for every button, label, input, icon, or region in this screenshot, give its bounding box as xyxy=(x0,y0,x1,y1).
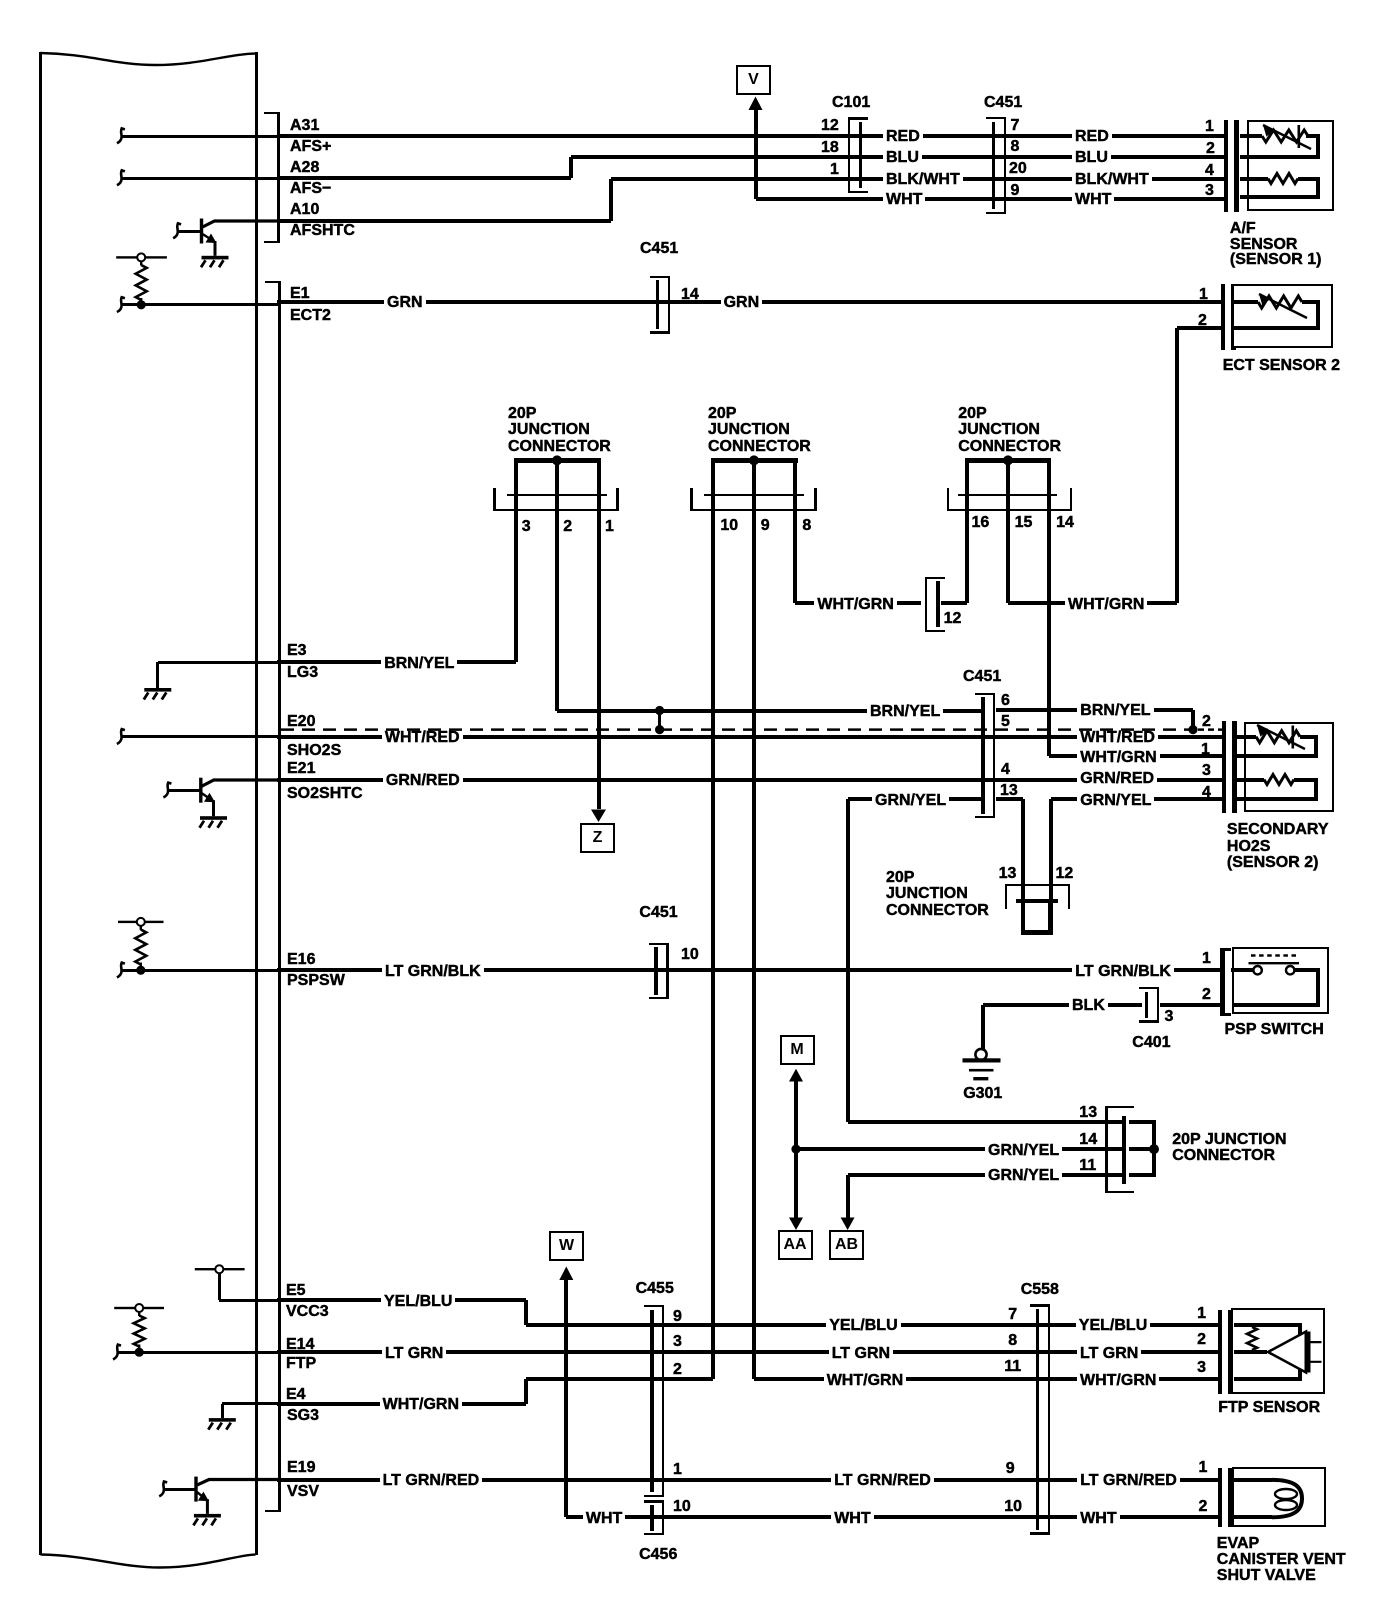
wire label WHT (left) xyxy=(583,1510,625,1528)
20P junction connector 2 xyxy=(711,458,798,462)
wire label BLK xyxy=(1069,997,1108,1015)
label PSP SWITCH xyxy=(1225,1022,1324,1038)
HO2S heater loop right side xyxy=(1314,780,1318,800)
pin 3 junction connector 1 xyxy=(522,519,531,535)
wire RED A31 row to A/F sensor pin1 xyxy=(277,134,1224,138)
page reference box AA xyxy=(778,1230,813,1260)
connector C451 (E16 wire) xyxy=(654,947,658,995)
transistor Q3 VSV driver ground xyxy=(194,1514,221,1518)
ECM connector bracket (E-pins group) xyxy=(278,281,280,1512)
pin A28 xyxy=(290,160,319,176)
wire label WHT/GRN (sensor row) xyxy=(1077,749,1159,767)
E3 internal ground wire xyxy=(158,661,278,664)
pin 18 C101 xyxy=(821,140,839,156)
transistor Q2 SO2SHTC driver emitter arrow xyxy=(202,793,211,799)
transistor Q1 AFSHTC driver collector xyxy=(203,221,279,227)
pin 2 EVAP valve xyxy=(1199,1499,1208,1515)
junction dot shield jumper top xyxy=(655,706,664,715)
wire E16 stub inside ECM xyxy=(121,969,279,972)
right junction bus dot xyxy=(1149,1144,1159,1154)
label C101 xyxy=(832,95,870,111)
pin name SG3 xyxy=(287,1408,319,1424)
label EVAP xyxy=(1217,1536,1259,1552)
resistor R2 zigzag xyxy=(135,930,146,965)
pin 3 FTP sensor xyxy=(1197,1360,1206,1376)
torn wire hook E1 xyxy=(117,297,125,312)
pin 12 connector xyxy=(944,611,962,627)
wire label GRN/YEL (row11) xyxy=(985,1167,1062,1185)
PSP switch lever xyxy=(1249,962,1300,964)
mid 20P junction connector (pins 13/12) bracket xyxy=(1005,884,1007,909)
page reference box Z xyxy=(580,823,615,853)
pin 2 junction connector 1 xyxy=(563,519,572,535)
A/F sensor body xyxy=(1247,120,1335,211)
EVAP valve connector bar xyxy=(1218,1468,1222,1527)
page reference box V xyxy=(736,65,771,95)
transistor Q3 VSV driver emitter arrow xyxy=(197,1492,204,1498)
mid 20P junction connector bus loop xyxy=(1016,899,1058,904)
label C451 xyxy=(984,95,1022,111)
A/F heater wire right xyxy=(1298,177,1320,181)
wire label WHT/GRN (right) xyxy=(1077,1372,1159,1390)
label A/F xyxy=(1230,221,1256,237)
pin 13 mid junction connector xyxy=(999,866,1017,882)
pin 20 C451 xyxy=(1009,161,1027,177)
wire label WHT/GRN (to ECT2) xyxy=(1065,596,1147,614)
connector C101 xyxy=(859,122,863,188)
torn wire hook E20 xyxy=(117,729,125,744)
EVAP coil loop 2 xyxy=(1275,1500,1297,1510)
wire label LT GRN/BLK (left) xyxy=(382,963,484,981)
wire label WHT/RED (right) xyxy=(1077,729,1158,747)
ECM connector bracket (A-pins group) xyxy=(277,112,279,243)
wire BRN/YEL elbow down to shield xyxy=(1191,710,1195,730)
A/F loop right side xyxy=(1316,136,1320,157)
EVAP coil wire bottom xyxy=(1234,1515,1273,1519)
pin 10 C451 xyxy=(681,947,699,963)
wire GRN E1 row to ECT sensor 2 xyxy=(277,300,1221,304)
wire BRN/YEL drop JC1 pin2 xyxy=(555,511,559,711)
shield jumper wire xyxy=(658,711,661,730)
wire label LT GRN/BLK (right) xyxy=(1072,963,1174,981)
EVAP coil wire top xyxy=(1234,1478,1273,1482)
ground at E4 SG3 xyxy=(209,1418,236,1422)
HO2S heater return pin4 xyxy=(1234,797,1319,801)
wire WHT/GRN drop JC2 pin10 xyxy=(711,511,715,1379)
wire WHT/GRN JC2 pin9 run to FTP pin3 xyxy=(754,1377,1218,1381)
R2 lead xyxy=(140,926,142,930)
arrowhead down into AB xyxy=(841,1218,855,1231)
wire label LT GRN (left) xyxy=(382,1345,446,1363)
pin name AFSHTC xyxy=(290,223,355,239)
resistor R3 zigzag xyxy=(134,1316,145,1347)
wire label YEL/BLU (right) xyxy=(1076,1317,1150,1335)
pin name SO2SHTC xyxy=(287,786,363,802)
label SECONDARY xyxy=(1227,822,1329,838)
pin name FTP xyxy=(286,1356,316,1372)
R1 top rail xyxy=(116,256,167,258)
wire label WHT/GRN (to conn 12) xyxy=(814,596,896,614)
pin 14 C451 xyxy=(681,287,699,303)
wire BRN/YEL JC1pin2 to C451 pin6 xyxy=(557,709,982,713)
pin name AFS- xyxy=(290,181,331,197)
20P junction connector 3 bus dot xyxy=(1003,455,1013,465)
wire label YEL/BLU (left) xyxy=(381,1293,455,1311)
wire E14 stub inside ECM xyxy=(117,1351,278,1354)
page reference box M xyxy=(780,1035,815,1065)
pin 1 FTP sensor xyxy=(1197,1306,1206,1322)
pin 7 C451 xyxy=(1011,118,1020,134)
wire LT GRN/BLK E16 row to PSP switch xyxy=(277,968,1220,972)
label G301 xyxy=(963,1086,1002,1102)
ECT sensor 2 body xyxy=(1232,284,1334,348)
wire GRN/YEL drop to mid junction pin13 xyxy=(1021,799,1025,901)
FTP sensor triangle xyxy=(1268,1332,1306,1373)
pin 9 C451 xyxy=(1011,183,1020,199)
transistor Q3 VSV driver collector xyxy=(197,1480,278,1486)
HO2S heater zigzag xyxy=(1264,775,1294,785)
wire BLK PSP pin2 to G301 xyxy=(983,1003,1142,1007)
pin 2 FTP sensor xyxy=(1197,1332,1206,1348)
pin 13 C451 xyxy=(1000,783,1018,799)
wire label LT GRN/RED (right) xyxy=(1077,1472,1180,1490)
pin 1 C455 xyxy=(673,1462,682,1478)
PSP loop right side xyxy=(1316,970,1320,1005)
pin 12 C101 xyxy=(821,118,839,134)
wire drop JC1 pin1 to page ref Z xyxy=(597,511,601,809)
pin 4 C451 xyxy=(1001,762,1010,778)
R1 lead xyxy=(140,261,142,265)
20P junction connector 3 xyxy=(965,458,1051,462)
arrowhead up into V xyxy=(749,97,763,111)
pin name VSV xyxy=(287,1484,319,1500)
G301 bar1 xyxy=(963,1058,1001,1062)
wire WHT/GRN drop JC3 pin14 xyxy=(1047,511,1051,756)
FTP top loop wire xyxy=(1234,1323,1303,1327)
resistor R1 zigzag xyxy=(136,265,147,300)
wire A28 stub inside ECM xyxy=(121,177,279,180)
pin 2 A/F sensor xyxy=(1206,141,1215,157)
pin 4 A/F sensor xyxy=(1205,163,1214,179)
pin 12 mid junction connector xyxy=(1056,866,1074,882)
A/F element arrow xyxy=(1263,125,1311,149)
wire label RED (right) xyxy=(1072,128,1112,146)
label CONNECTOR (mid junction) xyxy=(886,903,989,919)
pin 8 C558 xyxy=(1008,1333,1017,1349)
wire label BRN/YEL (left of C451) xyxy=(867,703,943,721)
label CANISTER VENT xyxy=(1217,1552,1346,1568)
wire label BRN/YEL (right of C451) xyxy=(1077,702,1153,720)
wire LT GRN E14 row to FTP pin2 xyxy=(277,1350,1218,1354)
wire GRN/RED E21 row to HO2S xyxy=(277,778,1222,782)
label C456 xyxy=(639,1547,677,1563)
torn wire hook A31 xyxy=(117,128,125,143)
ground at E3 xyxy=(144,688,171,692)
transistor Q1 AFSHTC driver ground xyxy=(202,256,229,260)
wire WHT/RED E20 row to HO2S xyxy=(277,735,1222,739)
junction dot R3-E14 xyxy=(135,1348,144,1357)
PSP loop return pin2 xyxy=(1233,1003,1320,1007)
pin 11 C558 xyxy=(1004,1359,1021,1375)
wire BLK C401 to PSP pin2 xyxy=(1160,1003,1221,1007)
pin 1 HO2S xyxy=(1201,742,1210,758)
EVAP coil loop 1 xyxy=(1275,1489,1297,1499)
pin 1 ECT sensor 2 xyxy=(1199,287,1208,303)
label (SENSOR 1) xyxy=(1230,252,1322,268)
arrowhead up into W xyxy=(559,1267,573,1281)
wire label GRN (left) xyxy=(384,294,426,312)
wire GRN/YEL row 11 xyxy=(848,1173,1125,1177)
pin 8 C451 xyxy=(1011,139,1020,155)
wire label GRN/YEL (left of C451) xyxy=(872,792,949,810)
transistor Q1 AFSHTC driver base bar xyxy=(200,219,203,244)
torn wire hook Q3 base xyxy=(159,1482,167,1497)
connector C456 xyxy=(650,1505,654,1531)
pin 8 junction connector 2 xyxy=(802,518,811,534)
transistor Q2 SO2SHTC driver emitter lead xyxy=(212,800,215,816)
label ECT SENSOR 2 xyxy=(1223,358,1340,374)
label CONNECTOR xyxy=(1172,1148,1275,1164)
pin E19 xyxy=(287,1460,315,1476)
wire label WHT (left) xyxy=(883,191,925,209)
wire WHT/GRN from ECT pin2 xyxy=(1177,326,1222,330)
label SHUT VALVE xyxy=(1217,1568,1316,1584)
wire label BLU (left) xyxy=(883,149,922,167)
PSP contact A xyxy=(1253,966,1261,974)
pin 1 PSP switch xyxy=(1202,951,1211,967)
junction dot R1-E1 xyxy=(137,300,146,309)
pin name PSPSW xyxy=(287,973,345,989)
pin 2 ECT sensor 2 xyxy=(1198,313,1207,329)
wire label WHT/GRN (left) xyxy=(380,1396,462,1414)
label C451 at E16 xyxy=(639,905,677,921)
E5 internal VCC tap xyxy=(218,1273,221,1300)
HO2S sensing element zigzag xyxy=(1256,731,1300,743)
wire WHT vertical from page ref V xyxy=(754,108,758,199)
pin 5 C451 xyxy=(1001,714,1010,730)
HO2S loop right side xyxy=(1314,737,1318,757)
pin 2 C455 xyxy=(673,1362,682,1378)
wire WHT/GRN drop JC3 pin15 xyxy=(1006,511,1010,603)
junction dot shield end xyxy=(1188,725,1197,734)
pin E21 xyxy=(287,761,315,777)
pin 14 right junction connector xyxy=(1079,1132,1097,1148)
wire WHT/GRN E4 row xyxy=(277,1402,526,1406)
wire label GRN/RED (left) xyxy=(383,772,463,790)
PSP switch dashed travel line xyxy=(1251,954,1296,956)
ECT loop return pin2 xyxy=(1232,326,1320,330)
A/F element wire right xyxy=(1306,134,1320,138)
connector C451 (GRN wire) xyxy=(656,280,660,329)
20P junction connector 1 xyxy=(514,458,601,462)
HO2S loop return pin1 xyxy=(1234,754,1319,758)
page reference box AB xyxy=(829,1230,864,1260)
pin 10 junction connector 2 xyxy=(720,518,738,534)
connector C451 (engine harness, A/F sensor wires) xyxy=(992,122,996,210)
ECT sensor 2 connector bar xyxy=(1221,284,1225,350)
HO2S sensor body xyxy=(1244,722,1334,813)
transistor Q3 VSV driver emitter lead xyxy=(206,1499,209,1514)
HO2S heater wire right xyxy=(1294,778,1318,782)
wire BRN/YEL C451 pin6 to sensor shield xyxy=(996,708,1193,712)
HO2S element arrow xyxy=(1257,725,1305,749)
wire WHT/GRN vertical down from ECT pin2 xyxy=(1175,328,1179,603)
wire BLK/WHT step up xyxy=(609,179,613,221)
G301 bar3 xyxy=(973,1077,988,1080)
shield dashed line E20 xyxy=(281,728,1193,731)
wire BLU step up xyxy=(569,157,573,178)
HO2S element wire xyxy=(1234,735,1257,739)
torn wire hook Q1 base xyxy=(173,223,181,238)
HO2S element tick xyxy=(1292,726,1295,749)
wire WHT/GRN JC3pin14 to HO2S pin1 xyxy=(1049,754,1223,758)
E5 rail xyxy=(195,1268,245,1270)
pin 3 C401 xyxy=(1165,1009,1174,1025)
label HO2S xyxy=(1227,839,1271,855)
right 20P junction connector bracket xyxy=(1122,1116,1126,1184)
A/F element tick xyxy=(1298,125,1301,148)
wire WHT/GRN drop JC2 pin8 xyxy=(793,511,797,603)
wire GRN/YEL down to AB xyxy=(846,1175,850,1219)
connector C455 xyxy=(650,1310,654,1493)
torn wire hook A28 xyxy=(117,170,125,185)
wire BLU upper run to A/F pin2 xyxy=(571,155,1224,159)
wire YEL/BLU run to FTP pin1 xyxy=(526,1323,1218,1327)
Q3 base lead xyxy=(163,1488,195,1491)
pin 15 junction connector 3 xyxy=(1015,515,1033,531)
ECT sensor 2 thermistor zigzag xyxy=(1258,296,1302,308)
PSP switch connector bracket xyxy=(1220,948,1225,1015)
wire WHT/GRN drop JC2 pin9 xyxy=(752,511,756,1379)
ECT element wire xyxy=(1232,300,1258,304)
shield dashed stub at HO2S pin2 xyxy=(1198,728,1223,731)
wire WHT/GRN step up xyxy=(524,1379,528,1404)
pin 13 right junction connector xyxy=(1079,1105,1097,1121)
R2 top rail xyxy=(118,921,164,923)
wire BRN/YEL E3 row xyxy=(277,660,516,664)
pin 7 C558 xyxy=(1008,1307,1017,1323)
torn wire hook E14 xyxy=(113,1345,121,1360)
pin 2 HO2S xyxy=(1202,714,1211,730)
wire LT GRN/RED E19 row to EVAP valve xyxy=(277,1478,1218,1482)
label SENSOR xyxy=(1230,237,1298,253)
wire GRN/YEL row 13 to right junction connector xyxy=(848,1120,1126,1124)
label C451 mid xyxy=(963,669,1001,685)
A/F heater return pin3 xyxy=(1240,195,1320,199)
20P junction connector 1 bus dot xyxy=(552,455,562,465)
pin E16 xyxy=(287,952,315,968)
pin 1 C101 xyxy=(830,162,839,178)
pin name LG3 xyxy=(287,665,318,681)
A/F heater loop right side xyxy=(1316,179,1320,198)
ECT thermistor arrow xyxy=(1259,294,1307,318)
wire label LT GRN/RED (mid) xyxy=(831,1472,934,1490)
pin A10 xyxy=(290,202,319,218)
wire label LT GRN/RED (left) xyxy=(380,1472,483,1490)
wire GRN/YEL rise from mid junction pin12 xyxy=(1049,799,1053,901)
arrowhead down into Z xyxy=(591,810,606,823)
pin 6 C451 xyxy=(1001,693,1010,709)
FTP triangle base bar xyxy=(1305,1332,1311,1373)
A/F heated element wire xyxy=(1240,134,1262,138)
wire BLK/WHT from A10 xyxy=(277,219,611,223)
A/F heater wire xyxy=(1240,177,1268,181)
R1 node circle xyxy=(137,253,145,261)
R2 node circle xyxy=(137,918,145,926)
E5 node circle xyxy=(215,1265,223,1273)
wire WHT/GRN drop JC3 pin16 xyxy=(965,511,969,603)
pin 3 C455 xyxy=(673,1334,682,1350)
wire GRN/YEL C451 pin13 to junction xyxy=(996,797,1023,801)
pin E4 xyxy=(286,1387,306,1403)
pin 14 junction connector 3 xyxy=(1056,515,1074,531)
pin 9 C558 xyxy=(1006,1461,1015,1477)
pin 10 C456 xyxy=(673,1499,691,1515)
FTP sensor connector bar xyxy=(1218,1310,1222,1395)
EVAP valve body xyxy=(1232,1467,1326,1527)
transistor Q2 SO2SHTC driver collector xyxy=(202,780,278,786)
connector C451 (HO2S sensor 2 wires) xyxy=(981,697,985,813)
R3 node circle xyxy=(135,1304,143,1312)
pin 3 A/F sensor xyxy=(1205,183,1214,199)
transistor Q2 SO2SHTC driver ground xyxy=(200,816,227,820)
wire label BLK/WHT (left) xyxy=(883,171,963,189)
wire WHT run to A/F pin3 xyxy=(756,197,1225,201)
PSP contact B wire xyxy=(1294,968,1320,972)
transistor Q1 AFSHTC driver emitter arrow xyxy=(203,234,213,240)
pin 2 PSP switch xyxy=(1202,987,1211,1003)
FTP resistor zigzag xyxy=(1247,1327,1257,1350)
HO2S heater wire xyxy=(1234,778,1265,782)
A/F sensor connector bar xyxy=(1224,120,1228,212)
FTP pin2 wire to wiper xyxy=(1234,1350,1268,1354)
label (SENSOR 2) xyxy=(1227,855,1319,871)
wire GRN/YEL row 14 xyxy=(796,1147,1125,1151)
Q1 base lead xyxy=(177,230,200,233)
PSP pin1 wire to contact xyxy=(1231,968,1254,972)
wire GRN/YEL to HO2S pin4 xyxy=(1051,797,1222,801)
R3 lead xyxy=(138,1312,140,1316)
wire label BLK/WHT (right) xyxy=(1072,171,1152,189)
wire E1 stub inside ECM xyxy=(121,303,279,306)
label C455 xyxy=(636,1281,674,1297)
ECT loop right side xyxy=(1316,302,1320,328)
arrowhead up into M xyxy=(789,1069,803,1082)
wire BLK drop to ground G301 xyxy=(981,1005,985,1049)
wire label LT GRN (right) xyxy=(1077,1345,1141,1363)
pin 1 A/F sensor xyxy=(1205,119,1214,135)
pin name SHO2S xyxy=(287,743,341,759)
wire label WHT/GRN (mid) xyxy=(824,1372,906,1390)
label FTP SENSOR xyxy=(1218,1400,1320,1416)
A/F loop return pin2 xyxy=(1240,155,1320,159)
pin 4 HO2S xyxy=(1202,785,1211,801)
connector C401 xyxy=(1145,992,1149,1018)
wire WHT/GRN JC3 pin15 to ECT2 xyxy=(1008,601,1177,605)
wire BLU from A28 xyxy=(277,176,571,180)
R2 lead bottom xyxy=(140,963,142,969)
FTP output stubs xyxy=(1311,1342,1322,1362)
wire WHT/GRN conn12 to JC3 pin16 xyxy=(941,601,967,605)
wire label GRN/YEL (row14) xyxy=(985,1142,1062,1160)
wire label GRN/RED (right) xyxy=(1077,770,1157,788)
wire WHT run to EVAP valve pin2 xyxy=(566,1515,1218,1519)
connector C558 xyxy=(1036,1309,1040,1530)
label JUNCTION (mid junction) xyxy=(886,886,968,902)
ECM torn bottom edge xyxy=(41,1555,256,1568)
pin name VCC3 xyxy=(286,1304,329,1320)
wire WHT/GRN JC2pin8 to connector 12 xyxy=(795,601,920,605)
